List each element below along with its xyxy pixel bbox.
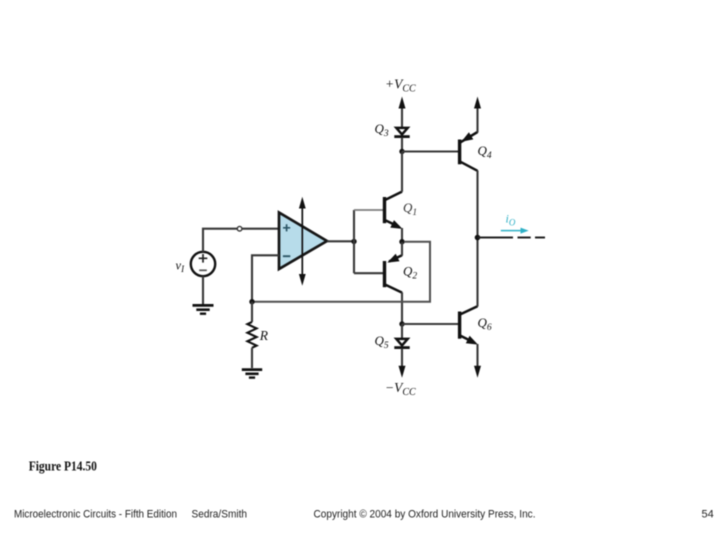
wire junction to Q1/Q2 bases (vertical) xyxy=(353,210,355,273)
wire op-amp inverting input to feedback node xyxy=(252,255,279,301)
node op-amp output junction xyxy=(351,239,356,244)
transistor Q4 (pnp) xyxy=(460,132,478,171)
arrowhead -VCC at Q5 xyxy=(399,366,406,378)
ground (below R) xyxy=(242,370,262,378)
wire vI to ground xyxy=(202,276,204,304)
svg-text:Figure P14.50: Figure P14.50 xyxy=(29,460,97,475)
wire node A to Q4 base xyxy=(402,150,458,152)
wire terminal to op-amp + input xyxy=(242,228,279,230)
wire node B to Q5 xyxy=(401,324,403,338)
svg-text:Copyright © 2004 by Oxford Uni: Copyright © 2004 by Oxford University Pr… xyxy=(314,509,536,521)
node B (Q2 collector / Q5 / Q6 base junction) xyxy=(399,321,404,326)
source vI xyxy=(191,252,215,276)
svg-text:54: 54 xyxy=(702,509,714,521)
wire to Q1 base xyxy=(354,209,383,211)
wire output dashed segment xyxy=(518,237,546,239)
svg-text:Microelectronic Circuits - Fif: Microelectronic Circuits - Fifth Edition xyxy=(14,509,177,521)
wire op-amp output to junction xyxy=(327,240,354,242)
resistor R xyxy=(247,322,256,348)
wire Q4 emitter to +VCC arrow xyxy=(476,107,478,133)
svg-text:Sedra/Smith: Sedra/Smith xyxy=(192,509,248,521)
wire resistor to ground xyxy=(251,348,253,368)
wire node B to Q6 base xyxy=(402,323,458,325)
transistor Q1 (npn) xyxy=(385,192,403,229)
node feedback / R junction xyxy=(249,299,254,304)
wire Q3 top to +VCC arrow xyxy=(401,107,403,128)
wire Q6 emitter to -VCC arrow xyxy=(476,344,478,368)
transistor Q3 (diode-connected) symbol xyxy=(394,128,409,137)
arrowhead -VCC at Q6 emitter xyxy=(474,366,481,378)
wire feedback loop (emitter node to resistor node) xyxy=(254,242,430,302)
wire output solid segment xyxy=(478,237,514,239)
node input terminal (open circle) xyxy=(237,226,242,231)
wire Q4 collector to output node xyxy=(476,171,478,238)
op-amp U1 xyxy=(279,213,327,270)
node A (Q3 / Q4 base / Q1 collector junction) xyxy=(399,149,404,154)
transistor Q5 (diode-connected) symbol xyxy=(394,339,409,348)
wire Q2 emitter from emitter node xyxy=(401,242,403,256)
arrowhead +VCC at Q4 emitter xyxy=(474,97,481,109)
transistor Q2 (pnp) xyxy=(385,254,403,293)
wire Q2 collector to node B xyxy=(401,292,403,324)
svg-text:R: R xyxy=(259,328,269,343)
wire Q3 cathode to node A xyxy=(401,138,403,152)
node emitters junction xyxy=(399,239,404,244)
wire Q1 collector to node A xyxy=(401,152,403,192)
transistor Q6 (npn) xyxy=(460,306,478,344)
wire to Q2 base xyxy=(354,272,383,274)
wire Q6 collector to output node xyxy=(476,238,478,307)
wire vI to input terminal xyxy=(203,229,237,252)
node output (io) xyxy=(475,235,481,241)
op-amp supply arrows xyxy=(299,197,306,286)
wire Q5 to -VCC arrow xyxy=(401,349,403,368)
ground (below vI) xyxy=(193,305,214,313)
wire node to resistor R xyxy=(251,302,253,322)
wire Q1 emitter to emitter node xyxy=(401,228,403,242)
arrowhead iO direction xyxy=(501,228,529,234)
arrowhead +VCC at Q3 branch xyxy=(399,97,406,109)
